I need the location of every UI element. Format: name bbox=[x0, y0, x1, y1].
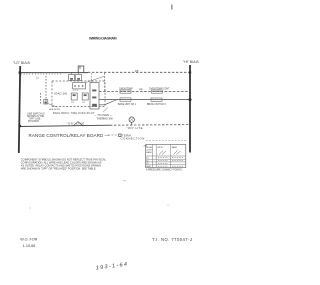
table row labels bbox=[146, 158, 150, 168]
svg-text:BROIL UNIT NO 2: BROIL UNIT NO 2 bbox=[147, 104, 166, 106]
svg-text:1 2 3: 1 2 3 bbox=[73, 90, 79, 92]
table frame bbox=[146, 145, 186, 168]
title WIRING DIAGRAM bbox=[89, 36, 117, 40]
wire top line dashed part bbox=[88, 71, 190, 73]
table top dashed line bbox=[146, 140, 186, 142]
svg-text:PP: PP bbox=[135, 69, 139, 73]
table header col4 BAKE bbox=[172, 146, 181, 155]
page number mark bbox=[171, 5, 173, 10]
junction right rail / top line bbox=[189, 71, 191, 73]
svg-text:WIRING DIAGRAM: WIRING DIAGRAM bbox=[89, 36, 117, 40]
svg-text:L1: L1 bbox=[36, 77, 39, 80]
svg-text:THERMO SW: THERMO SW bbox=[97, 116, 114, 120]
svg-text:(GAC-1A): (GAC-1A) bbox=[54, 92, 67, 96]
node "HI" BULB label bbox=[183, 60, 199, 64]
faint speck 2 bbox=[29, 208, 31, 209]
node "LO" BULB label bbox=[13, 61, 30, 65]
junction right rail / line2 bbox=[189, 98, 192, 101]
label PP on top line bbox=[135, 69, 139, 73]
relay K1 bbox=[71, 93, 77, 104]
svg-text:ARE SHOWN IN "OFF" OR "RELAXED: ARE SHOWN IN "OFF" OR "RELAXED" POSITION… bbox=[21, 167, 97, 171]
line switch pointer text block bbox=[27, 113, 45, 123]
svg-text:K2: K2 bbox=[82, 102, 85, 104]
oven temp switch group B upper bbox=[149, 88, 170, 93]
svg-text:193-1-64: 193-1-64 bbox=[96, 262, 129, 272]
label L1 under top line bbox=[36, 77, 39, 80]
table header col1 text bbox=[146, 146, 153, 154]
relay board tall box K600 bbox=[90, 73, 99, 109]
line switch dashed lead 1 bbox=[45, 76, 47, 104]
line switch contact bbox=[44, 100, 48, 104]
wire bottom line solid part bbox=[19, 125, 110, 126]
note paragraph bbox=[21, 157, 107, 170]
wire line2 bbox=[99, 99, 190, 101]
svg-text:BAKE: BAKE bbox=[172, 146, 178, 149]
broil unit box group B lower bbox=[147, 98, 166, 106]
svg-text:MADE: MADE bbox=[146, 151, 152, 154]
label (GAC-1A) bbox=[54, 92, 67, 96]
board pin label row bbox=[53, 112, 95, 115]
wire bottom line dashed part bbox=[110, 124, 190, 127]
wire right rail bbox=[189, 65, 191, 153]
svg-text:CONNECTION: CONNECTION bbox=[121, 137, 145, 141]
date 1-19-66 bbox=[23, 244, 36, 248]
junction left rail / top line bbox=[19, 71, 21, 73]
label PP on line1 bbox=[139, 87, 143, 91]
W.O. FOR text bbox=[20, 238, 37, 242]
svg-text:1-19-66: 1-19-66 bbox=[23, 244, 36, 248]
svg-text:"HI" BULB: "HI" BULB bbox=[183, 60, 199, 64]
svg-text:— TO OVEN —: — TO OVEN — bbox=[94, 113, 113, 117]
svg-text:"ON" LINE: "ON" LINE bbox=[67, 121, 85, 125]
svg-text:K1: K1 bbox=[146, 158, 148, 160]
svg-text:BAKE BROIL TIME OVEN PILOT: BAKE BROIL TIME OVEN PILOT bbox=[53, 112, 95, 115]
line switch dashed lead 2 bbox=[40, 93, 42, 104]
wire top line solid part bbox=[19, 73, 88, 74]
svg-text:T.I. NO. 770047-J: T.I. NO. 770047-J bbox=[152, 237, 192, 242]
svg-text:"LO" BULB: "LO" BULB bbox=[13, 61, 30, 65]
fuse F1 above top line bbox=[78, 66, 84, 72]
table row marks bbox=[158, 158, 183, 167]
svg-text:K1: K1 bbox=[71, 102, 74, 104]
relay contact box A2 bbox=[76, 73, 82, 81]
bake unit box group A lower bbox=[118, 98, 137, 106]
svg-text:POSITION: POSITION bbox=[28, 121, 39, 123]
table note bbox=[146, 168, 182, 171]
svg-text:BAKE UNIT NO 1: BAKE UNIT NO 1 bbox=[118, 103, 137, 106]
arrow marker on bottom line bbox=[73, 122, 83, 126]
relay K2 bbox=[82, 93, 88, 104]
wire board right vertical bbox=[104, 73, 106, 92]
leader to line switch note bbox=[48, 104, 61, 111]
wire diagonal from board to line2 bbox=[99, 100, 117, 105]
svg-text:W.O. FOR: W.O. FOR bbox=[20, 238, 37, 242]
svg-text:RELAY: RELAY bbox=[146, 146, 153, 149]
wire left rail bbox=[19, 66, 20, 153]
dashed board outline GAC-1A bbox=[52, 81, 105, 107]
TO OVEN THERMO SW label bbox=[94, 108, 113, 121]
small mark 265 bbox=[144, 145, 148, 147]
table header col3 BROIL bbox=[158, 147, 167, 155]
label 'ON' LINE bbox=[67, 121, 85, 125]
junction left rail / bottom line bbox=[19, 125, 21, 127]
legend leader bbox=[108, 134, 118, 136]
pilot lamp ON LITE bbox=[127, 117, 143, 130]
svg-text:K600: K600 bbox=[146, 166, 150, 168]
svg-text:SEE NOTE: SEE NOTE bbox=[49, 109, 61, 111]
faint speck 3 bbox=[167, 205, 169, 206]
svg-text:"ON" LITE: "ON" LITE bbox=[127, 126, 143, 130]
relay contact box A1 bbox=[69, 73, 75, 81]
svg-text:A PRESSURE CONNECT POINTS: A PRESSURE CONNECT POINTS bbox=[146, 168, 182, 171]
svg-text:PP: PP bbox=[139, 87, 143, 91]
connector row bbox=[73, 76, 105, 92]
handwritten mark bbox=[96, 262, 129, 272]
wire line1 bbox=[99, 91, 190, 93]
legend terminal connection bbox=[119, 133, 145, 140]
svg-text:K3: K3 bbox=[146, 163, 148, 165]
label RANGE CONTROL/RELAY BOARD bbox=[29, 133, 110, 138]
T.I. number bbox=[152, 237, 192, 242]
svg-text:BROIL: BROIL bbox=[158, 147, 164, 149]
faint speck 1 bbox=[123, 180, 126, 181]
svg-text:RANGE CONTROL/RELAY BOARD —: RANGE CONTROL/RELAY BOARD — bbox=[29, 133, 110, 138]
svg-text:K2: K2 bbox=[146, 160, 148, 162]
oven temp switch group A upper bbox=[119, 88, 133, 93]
